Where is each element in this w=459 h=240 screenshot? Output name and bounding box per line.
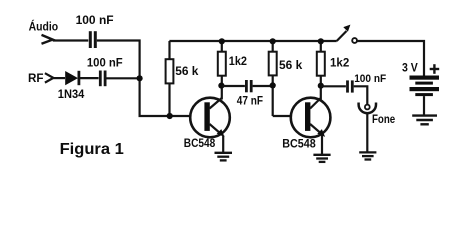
junction R3 / C3 / Q2 base feed: [270, 82, 276, 88]
transistor Q1 base bar: [204, 102, 209, 131]
wire battery to ground: [423, 96, 425, 115]
ground under phone jack: [359, 152, 376, 159]
svg-text:1k2: 1k2: [229, 54, 247, 68]
junction Q2 collector / R4 / C4: [318, 83, 324, 89]
svg-text:Figura 1: Figura 1: [60, 141, 124, 158]
transistor Q1 collector diagonal: [210, 98, 222, 109]
capacitor C3 47 nF: [246, 80, 251, 92]
junction node A: [137, 75, 143, 81]
resistor R1 56 k (leads): [168, 41, 170, 116]
ground under battery: [412, 116, 437, 125]
wire Q1 emitter down to ground: [222, 136, 224, 153]
phone jack J1 tip contact: [365, 105, 370, 110]
capacitor C4 100 nF (output): [348, 80, 353, 92]
wire jack to ground: [366, 113, 368, 152]
wire C2 to node A: [107, 77, 140, 79]
svg-text:100 nF: 100 nF: [76, 13, 114, 27]
battery plus sign: [430, 64, 440, 74]
resistor R1 56 k (body): [166, 59, 174, 83]
junction Q1 collector / R2 / C3: [218, 83, 224, 89]
svg-text:100 nF: 100 nF: [354, 73, 386, 85]
top rail from switch to battery: [357, 41, 424, 76]
wire R2 bottom to C3: [222, 85, 245, 87]
svg-text:56 k: 56 k: [279, 58, 303, 72]
switch S1 open contact: [352, 38, 357, 43]
svg-text:Fone: Fone: [372, 112, 395, 126]
svg-text:56 k: 56 k: [175, 64, 199, 78]
transistor Q2 collector diagonal: [310, 98, 321, 109]
svg-text:1k2: 1k2: [330, 56, 350, 70]
resistor R2 1k2 (leads): [221, 41, 223, 100]
transistor Q1 emitter diagonal with arrow: [210, 124, 225, 137]
junction rail / R2 top: [219, 38, 225, 44]
wire R4 junction to C4: [321, 85, 346, 87]
battery B1 3V plates: [410, 76, 440, 97]
svg-text:47 nF: 47 nF: [237, 93, 263, 107]
svg-text:RF: RF: [28, 71, 44, 85]
switch S1 lever with arrowhead: [337, 25, 351, 41]
capacitor C2 100 nF (RF coupling): [100, 71, 105, 87]
transistor Q1 BC548 (circle): [190, 98, 230, 138]
input terminal arrow RF: [45, 73, 54, 82]
junction rail / R4 top: [318, 38, 324, 44]
transistor Q2 base bar: [305, 102, 310, 131]
wire from C1 to node A, down to Q1 base line: [97, 41, 191, 117]
top supply rail: [169, 40, 336, 42]
svg-text:Áudio: Áudio: [29, 19, 58, 34]
wire diode to C2: [80, 77, 99, 79]
wire audio line from arrow to coupling cap: [53, 39, 89, 41]
svg-text:BC548: BC548: [184, 136, 216, 150]
resistor R4 1k2 (leads): [320, 41, 322, 100]
transistor Q2 emitter diagonal with arrow: [310, 124, 325, 137]
junction Q1 base / R1: [167, 113, 173, 119]
capacitor C1 100 nF (audio coupling): [90, 31, 95, 48]
wire C3 to R3 bottom junction: [253, 85, 273, 87]
svg-text:100 nF: 100 nF: [87, 56, 123, 70]
transistor Q2 BC548 (circle): [291, 98, 331, 138]
phone jack J1 sleeve cup: [359, 103, 376, 114]
resistor R3 56 k (body): [269, 52, 277, 76]
wire C4 to phone jack: [354, 86, 368, 104]
svg-text:3 V: 3 V: [402, 61, 418, 75]
resistor R2 1k2 (body): [218, 52, 226, 76]
input terminal arrow Áudio: [42, 35, 53, 44]
svg-text:BC548: BC548: [282, 136, 316, 150]
wire RF to diode: [53, 77, 65, 79]
svg-text:1N34: 1N34: [58, 87, 85, 101]
ground under Q2 emitter: [313, 155, 330, 162]
junction rail / R3 top: [270, 38, 276, 44]
wire Q2 base line: [273, 115, 291, 117]
wire Q2 emitter down to ground: [321, 136, 323, 155]
resistor R3 56 k (leads): [272, 41, 274, 116]
ground under Q1 emitter: [215, 153, 233, 161]
resistor R4 1k2 (body): [317, 52, 325, 76]
diode D1 1N34: [65, 71, 79, 85]
